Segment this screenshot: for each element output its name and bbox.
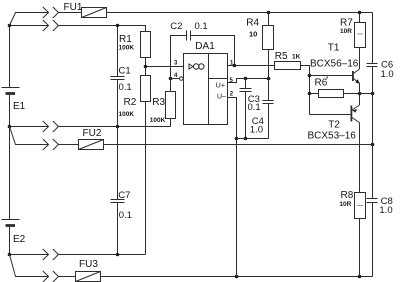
wire T2 base (310, 114, 351, 116)
svg-text:100K: 100K (150, 117, 166, 124)
node E1 plus (8, 24, 12, 28)
wire bus U- (237, 138, 269, 140)
wire row5 (10, 254, 49, 256)
capacitor C7 (111, 199, 125, 201)
wire R7 top lead (359, 13, 361, 23)
transistor T2 (350, 106, 352, 122)
connector chevrons row2 (43, 20, 49, 31)
wire C6 top lead (372, 13, 374, 64)
wire C1 upper lead (117, 26, 119, 77)
wire row3 (10, 126, 49, 128)
svg-text:0.1: 0.1 (248, 102, 261, 113)
node pin2 bus (235, 137, 239, 141)
wire pin2 (228, 98, 237, 277)
node pin4 (169, 77, 173, 81)
node row6-R8 (358, 275, 362, 279)
fuse FU3 (76, 272, 101, 282)
node row4-C8 (371, 143, 375, 147)
wire pin4 (171, 78, 180, 80)
wire row1 to FU1 (59, 12, 82, 14)
wire R8 bottom lead (359, 219, 361, 277)
svg-text:10R: 10R (339, 201, 351, 208)
node U+ R4 (267, 77, 271, 81)
wire R7 to T1 collector (359, 48, 361, 70)
svg-text:0.1: 0.1 (195, 21, 208, 32)
svg-text:10: 10 (249, 29, 257, 38)
svg-text:1.0: 1.0 (381, 69, 394, 80)
svg-text:E1: E1 (13, 101, 26, 112)
resistor R7 (355, 23, 366, 48)
wire E1 rail lower (9, 94, 11, 127)
node E1 minus (8, 125, 12, 129)
svg-text:3: 3 (174, 61, 178, 67)
wire row4 to FU2 (59, 144, 79, 146)
wire C6 down to C8 (372, 67, 374, 199)
inversion bubble pin4 (180, 77, 184, 81)
svg-text:2: 2 (230, 91, 234, 97)
wire R3 top lead (170, 79, 172, 92)
wire R5 to transistor bases (301, 66, 310, 115)
capacitor C2 (186, 31, 188, 41)
svg-text:DA1: DA1 (195, 41, 215, 52)
wire pin5 (228, 79, 269, 83)
wire row6 FU3 to right (101, 276, 373, 278)
wire R1 to R2 (145, 58, 147, 76)
resistor R5 (275, 62, 301, 70)
svg-text:U–: U– (217, 93, 226, 100)
resistor R3 (166, 92, 176, 119)
wire row5 to R2 lead (59, 254, 146, 256)
wire rail E1 to E2 (9, 127, 11, 220)
wire E1 rail upper (9, 26, 11, 88)
wire T1 emitter to T2 emitter (359, 84, 361, 106)
wire row3 to R3 (59, 126, 171, 128)
wire C7 lower lead (117, 203, 119, 255)
svg-text:1K: 1K (292, 54, 301, 61)
resistor R6 (319, 90, 344, 98)
wire row6 diagonal (10, 255, 49, 277)
wire R6 right lead (344, 93, 373, 95)
capacitor C6 (367, 63, 378, 65)
svg-text:T2: T2 (328, 120, 340, 131)
wire R4 to C3 (268, 50, 270, 101)
node divider pin3 (144, 65, 148, 69)
comparator symbol (189, 64, 193, 69)
wire row2 (10, 25, 49, 27)
wire C4 upper lead (245, 79, 247, 89)
capacitor C4 (240, 88, 252, 90)
resistor R1 (141, 32, 151, 58)
svg-text:FU3: FU3 (79, 259, 98, 270)
node pin1-C2 (233, 64, 237, 68)
svg-text:R5: R5 (275, 51, 288, 62)
wire row4 diagonal (10, 127, 49, 145)
transistor T1 (352, 71, 354, 81)
wire C3 lower lead (268, 104, 270, 139)
wire R3 bottom lead (170, 119, 172, 127)
connector chevrons row4 (43, 139, 49, 150)
svg-text:0.1: 0.1 (119, 210, 132, 221)
node row6-DA1pin2 (235, 275, 239, 279)
wire C4 lower lead (245, 92, 247, 139)
svg-text:E2: E2 (13, 234, 26, 245)
node row2-C1 (116, 24, 120, 28)
battery E2 (2, 219, 20, 221)
fuse FU1 (82, 8, 107, 18)
wire pin3 (146, 66, 184, 68)
node E2 minus (8, 253, 12, 257)
svg-text:0.1: 0.1 (119, 82, 132, 93)
svg-text:BCX56–16: BCX56–16 (310, 58, 359, 69)
wire pin1 (228, 65, 275, 67)
node C4 bus (244, 137, 248, 141)
connector chevrons row3 (43, 121, 49, 132)
node row1-R7 (358, 11, 362, 15)
node R6 left branch (308, 92, 312, 96)
svg-text:C7: C7 (118, 190, 130, 201)
svg-text:1.0: 1.0 (379, 205, 392, 216)
wire R2 lower lead (145, 102, 147, 255)
wire C2 left lead (171, 36, 187, 79)
wire row4 FU2 to right (104, 144, 373, 146)
svg-text:100K: 100K (119, 111, 135, 118)
wire T2 collector down to R8 (359, 123, 361, 193)
capacitor C8 (367, 198, 378, 200)
svg-text:R7: R7 (340, 18, 353, 29)
node U+ C4 (244, 77, 248, 81)
wire row1 top-left diagonal (10, 13, 49, 26)
wire T1 base (310, 75, 353, 77)
node C6 bottom (371, 92, 375, 96)
wire row6 to FU3 (59, 276, 76, 278)
svg-text:U+: U+ (216, 83, 225, 90)
node emitter join (358, 92, 362, 96)
wire R6 left lead (310, 93, 319, 95)
wire row1 FU1 to right corner (107, 12, 373, 14)
svg-text:R4: R4 (246, 18, 259, 29)
svg-text:FU1: FU1 (64, 2, 83, 13)
svg-text:R3: R3 (152, 97, 165, 108)
node row1-R4 (267, 11, 271, 15)
svg-text:1.0: 1.0 (250, 125, 263, 136)
svg-text:*: * (326, 76, 329, 83)
svg-text:100K: 100K (119, 44, 135, 51)
svg-text:T1: T1 (328, 43, 340, 54)
svg-text:BCX53–16: BCX53–16 (308, 131, 357, 142)
svg-text:R8: R8 (341, 190, 354, 201)
connector chevrons row6 (43, 271, 49, 282)
op-amp DA1 box (184, 54, 228, 125)
wire R4 top lead (268, 13, 270, 26)
svg-text:10R: 10R (340, 28, 352, 35)
wire C8 lower lead (372, 203, 374, 277)
fuse FU2 (79, 140, 104, 150)
svg-text:R2: R2 (124, 97, 137, 108)
svg-text:C2: C2 (170, 21, 182, 32)
resistor R8 (355, 193, 366, 219)
wire E2 rail lower (9, 226, 11, 255)
capacitor C3 (263, 100, 274, 102)
wire C1 bottom to row3 to C7 (117, 80, 119, 200)
wire C2 right lead (191, 36, 235, 66)
node T1 base branch (308, 74, 312, 78)
svg-text:C1: C1 (119, 66, 131, 77)
battery E1 (2, 87, 20, 89)
connector chevrons row1 (43, 7, 49, 18)
svg-text:FU2: FU2 (83, 128, 102, 139)
wire row2 to R1 (59, 26, 146, 32)
node row3-C1C7 (116, 125, 120, 129)
connector chevrons row5 (43, 249, 49, 260)
resistor R2 (141, 76, 151, 102)
node row5-C7 (116, 253, 120, 257)
resistor R4 (263, 26, 274, 50)
capacitor C1 (111, 76, 125, 78)
